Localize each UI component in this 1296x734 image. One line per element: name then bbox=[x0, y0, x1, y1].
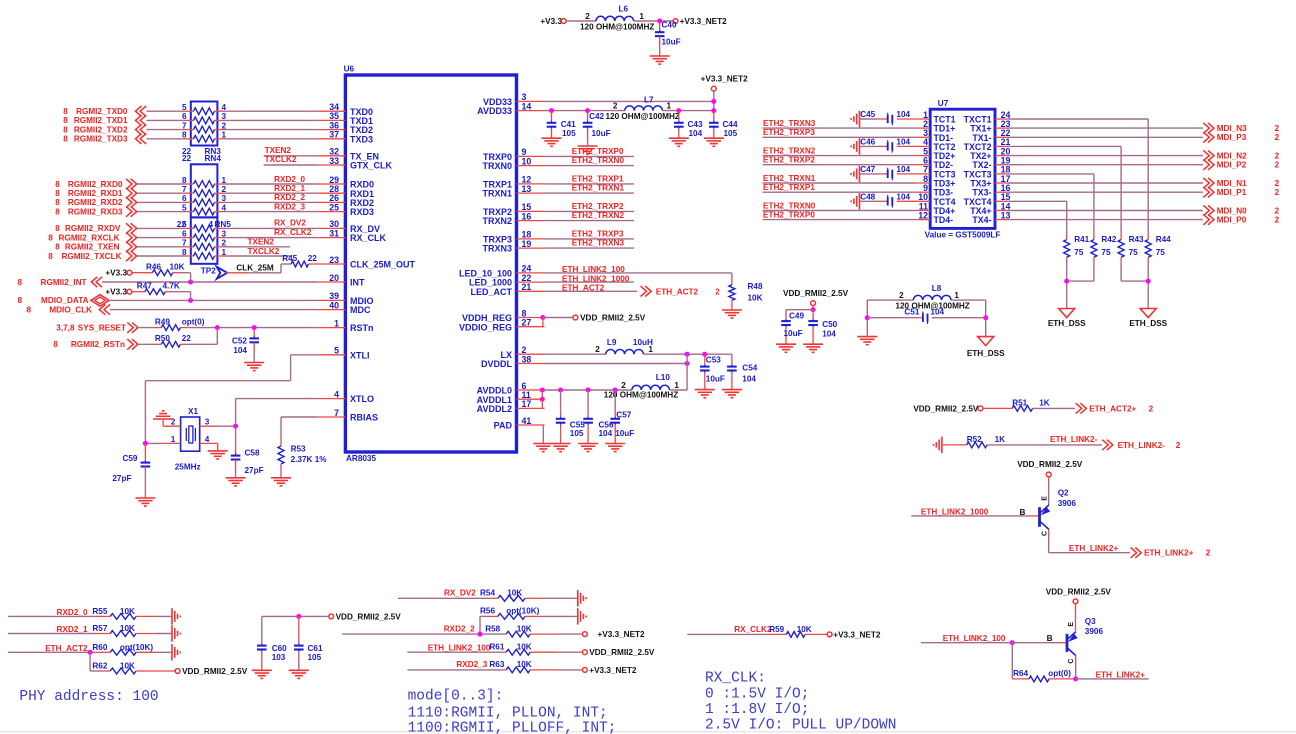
svg-text:R62: R62 bbox=[92, 662, 107, 671]
svg-text:2: 2 bbox=[1275, 124, 1280, 133]
svg-text:8: 8 bbox=[55, 180, 60, 189]
svg-text:4: 4 bbox=[209, 220, 214, 229]
svg-text:2: 2 bbox=[715, 287, 720, 296]
svg-text:RN4: RN4 bbox=[205, 154, 222, 163]
svg-text:20: 20 bbox=[329, 273, 339, 283]
svg-text:ETH2_TRXN1: ETH2_TRXN1 bbox=[572, 184, 625, 193]
svg-text:8: 8 bbox=[55, 198, 60, 207]
svg-text:75: 75 bbox=[1129, 248, 1139, 257]
svg-text:R49: R49 bbox=[155, 317, 170, 326]
svg-text:10K: 10K bbox=[507, 589, 522, 598]
svg-text:RXD2_2: RXD2_2 bbox=[274, 193, 305, 202]
svg-text:22: 22 bbox=[182, 334, 192, 343]
svg-text:10uF: 10uF bbox=[662, 38, 681, 47]
svg-text:R56: R56 bbox=[480, 607, 495, 616]
svg-text:RXD2_1: RXD2_1 bbox=[57, 625, 88, 634]
svg-text:ETH_LINK2-: ETH_LINK2- bbox=[1050, 435, 1098, 444]
svg-text:ETH_ACT2: ETH_ACT2 bbox=[45, 644, 88, 653]
svg-text:2: 2 bbox=[1275, 133, 1280, 142]
svg-text:27: 27 bbox=[522, 318, 532, 328]
svg-text:TXCLK2: TXCLK2 bbox=[248, 247, 280, 256]
svg-text:E: E bbox=[1068, 622, 1075, 627]
svg-text:PAD: PAD bbox=[494, 421, 513, 431]
svg-text:RX_DV2: RX_DV2 bbox=[444, 589, 476, 598]
svg-text:opt(10K): opt(10K) bbox=[506, 607, 539, 616]
svg-text:ETH_DSS: ETH_DSS bbox=[1129, 319, 1167, 328]
svg-text:INT: INT bbox=[350, 278, 365, 288]
svg-text:10uF: 10uF bbox=[784, 329, 803, 338]
svg-text:C59: C59 bbox=[122, 454, 137, 463]
svg-text:B: B bbox=[1047, 634, 1053, 643]
svg-text:RXD2_0: RXD2_0 bbox=[274, 175, 305, 184]
svg-text:27pF: 27pF bbox=[112, 474, 131, 483]
svg-text:C51: C51 bbox=[904, 308, 919, 317]
svg-text:1: 1 bbox=[954, 291, 959, 300]
svg-text:RX_DV2: RX_DV2 bbox=[274, 218, 306, 227]
svg-text:+V3.3_NET2: +V3.3_NET2 bbox=[833, 630, 881, 639]
svg-text:TP2: TP2 bbox=[201, 267, 216, 276]
svg-text:ETH_LINK2-: ETH_LINK2- bbox=[1118, 441, 1166, 450]
svg-text:2: 2 bbox=[1275, 188, 1280, 197]
svg-text:RGMII2_TXD3: RGMII2_TXD3 bbox=[74, 135, 128, 144]
svg-text:RXD3: RXD3 bbox=[350, 207, 374, 217]
svg-text:R57: R57 bbox=[92, 624, 107, 633]
svg-text:1: 1 bbox=[639, 12, 644, 21]
svg-text:MDI_P1: MDI_P1 bbox=[1217, 188, 1247, 197]
svg-text:RGMII2_RXD1: RGMII2_RXD1 bbox=[68, 189, 123, 198]
svg-text:+V3.3_NET2: +V3.3_NET2 bbox=[701, 74, 749, 83]
svg-text:2: 2 bbox=[899, 291, 904, 300]
svg-text:2: 2 bbox=[1275, 215, 1280, 224]
svg-text:R54: R54 bbox=[480, 589, 495, 598]
svg-text:ETH2_TRXP3: ETH2_TRXP3 bbox=[763, 128, 815, 137]
svg-text:R44: R44 bbox=[1156, 235, 1171, 244]
svg-text:ETH2_TRXN3: ETH2_TRXN3 bbox=[572, 239, 625, 248]
svg-text:RGMII2_TXCLK: RGMII2_TXCLK bbox=[61, 252, 121, 261]
svg-text:RGMI2_TXD0: RGMI2_TXD0 bbox=[76, 107, 128, 116]
svg-text:ETH_LINK2_100: ETH_LINK2_100 bbox=[562, 265, 625, 274]
svg-text:10uF: 10uF bbox=[592, 129, 611, 138]
svg-text:RXD2_0: RXD2_0 bbox=[57, 608, 88, 617]
svg-text:2: 2 bbox=[595, 345, 600, 354]
svg-text:12: 12 bbox=[918, 210, 928, 220]
svg-text:ETH_DSS: ETH_DSS bbox=[1048, 319, 1086, 328]
svg-text:CLK_25M_OUT: CLK_25M_OUT bbox=[350, 260, 416, 270]
svg-text:C53: C53 bbox=[706, 355, 721, 364]
svg-text:R48: R48 bbox=[748, 282, 763, 291]
svg-text:4.7K: 4.7K bbox=[163, 282, 180, 291]
svg-text:10: 10 bbox=[522, 156, 532, 166]
svg-text:DVDDL: DVDDL bbox=[481, 359, 513, 369]
svg-text:Q2: Q2 bbox=[1058, 488, 1069, 497]
svg-text:120 OHM@100MHZ: 120 OHM@100MHZ bbox=[580, 23, 654, 32]
svg-text:RXD2_1: RXD2_1 bbox=[274, 184, 305, 193]
svg-text:R55: R55 bbox=[92, 607, 107, 616]
svg-text:Q3: Q3 bbox=[1085, 617, 1096, 626]
svg-text:105: 105 bbox=[570, 429, 584, 438]
svg-text:104: 104 bbox=[599, 429, 613, 438]
svg-text:mode[0..3]:: mode[0..3]: bbox=[408, 689, 504, 705]
svg-text:C58: C58 bbox=[245, 448, 260, 457]
svg-text:ETH2_TRXP0: ETH2_TRXP0 bbox=[572, 147, 624, 156]
svg-text:VDD_RMII2_2.5V: VDD_RMII2_2.5V bbox=[1017, 460, 1083, 469]
svg-text:104: 104 bbox=[896, 165, 910, 174]
svg-text:41: 41 bbox=[522, 416, 532, 426]
svg-text:C46: C46 bbox=[860, 138, 875, 147]
svg-text:10uF: 10uF bbox=[706, 374, 725, 383]
svg-text:R64: R64 bbox=[1013, 669, 1028, 678]
svg-text:8: 8 bbox=[17, 278, 22, 287]
svg-text:+V3.3_NET2: +V3.3_NET2 bbox=[598, 630, 646, 639]
svg-text:opt(10K): opt(10K) bbox=[120, 643, 153, 652]
svg-text:R58: R58 bbox=[485, 624, 500, 633]
svg-text:R63: R63 bbox=[489, 660, 504, 669]
svg-text:8: 8 bbox=[63, 125, 68, 134]
svg-text:X1: X1 bbox=[188, 407, 198, 416]
svg-text:PHY address: 100: PHY address: 100 bbox=[19, 689, 158, 705]
svg-text:C52: C52 bbox=[232, 337, 247, 346]
svg-text:TX4-: TX4- bbox=[972, 215, 991, 225]
svg-text:R53: R53 bbox=[291, 444, 306, 453]
svg-text:2.37K 1%: 2.37K 1% bbox=[291, 455, 328, 464]
svg-text:VDD_RMII2_2.5V: VDD_RMII2_2.5V bbox=[336, 612, 402, 621]
svg-text:10uH: 10uH bbox=[633, 338, 653, 347]
svg-text:75: 75 bbox=[1156, 248, 1166, 257]
svg-text:R61: R61 bbox=[489, 642, 504, 651]
svg-text:RGMII2_RXD2: RGMII2_RXD2 bbox=[68, 198, 123, 207]
svg-text:MDI_P0: MDI_P0 bbox=[1217, 215, 1247, 224]
svg-text:7: 7 bbox=[334, 408, 339, 418]
svg-text:2: 2 bbox=[1149, 404, 1154, 413]
svg-text:8: 8 bbox=[55, 224, 60, 233]
svg-text:L8: L8 bbox=[932, 284, 942, 293]
svg-text:104: 104 bbox=[689, 129, 703, 138]
svg-text:VDD_RMII2_2.5V: VDD_RMII2_2.5V bbox=[580, 314, 646, 323]
svg-text:ETH_ACT2: ETH_ACT2 bbox=[656, 287, 699, 296]
svg-text:TRXN0: TRXN0 bbox=[482, 161, 512, 171]
svg-text:C: C bbox=[1068, 659, 1075, 664]
svg-text:RGMII2_TXD1: RGMII2_TXD1 bbox=[74, 116, 128, 125]
svg-text:C40: C40 bbox=[662, 20, 677, 29]
svg-text:ETH_DSS: ETH_DSS bbox=[967, 349, 1005, 358]
svg-text:ETH2_TRXP2: ETH2_TRXP2 bbox=[572, 202, 624, 211]
svg-text:GTX_CLK: GTX_CLK bbox=[350, 161, 393, 171]
svg-text:1 :1.8V I/O;: 1 :1.8V I/O; bbox=[705, 702, 809, 718]
svg-text:RX_CLK: RX_CLK bbox=[350, 233, 387, 243]
svg-text:C54: C54 bbox=[742, 363, 757, 372]
svg-text:10uF: 10uF bbox=[615, 429, 634, 438]
svg-text:RGMII2_RXCLK: RGMII2_RXCLK bbox=[59, 233, 120, 242]
svg-text:L9: L9 bbox=[607, 338, 617, 347]
svg-text:TXCLK2: TXCLK2 bbox=[265, 155, 297, 164]
svg-text:+V3.3_NET2: +V3.3_NET2 bbox=[589, 666, 637, 675]
svg-text:13: 13 bbox=[1001, 210, 1011, 220]
svg-text:MDI_N0: MDI_N0 bbox=[1217, 206, 1247, 215]
svg-text:1: 1 bbox=[667, 101, 672, 110]
svg-text:+V3.3_NET2: +V3.3_NET2 bbox=[680, 17, 728, 26]
svg-text:103: 103 bbox=[272, 653, 286, 662]
svg-text:1100:RGMII, PLLOFF, INT;: 1100:RGMII, PLLOFF, INT; bbox=[408, 720, 617, 734]
svg-text:ETH2_TRXN2: ETH2_TRXN2 bbox=[572, 211, 625, 220]
svg-text:C48: C48 bbox=[860, 193, 875, 202]
svg-text:MDIO_CLK: MDIO_CLK bbox=[49, 305, 92, 314]
svg-text:ETH2_TRXP0: ETH2_TRXP0 bbox=[763, 210, 815, 219]
svg-text:R52: R52 bbox=[967, 435, 982, 444]
svg-text:2: 2 bbox=[1275, 179, 1280, 188]
svg-text:ETH2_TRXN0: ETH2_TRXN0 bbox=[572, 156, 625, 165]
svg-text:R51: R51 bbox=[1012, 398, 1027, 407]
svg-text:RX_CLK2: RX_CLK2 bbox=[274, 228, 312, 237]
svg-text:TXD3: TXD3 bbox=[350, 134, 373, 144]
svg-text:8: 8 bbox=[63, 107, 68, 116]
svg-text:1110:RGMII, PLLON, INT;: 1110:RGMII, PLLON, INT; bbox=[408, 705, 608, 721]
svg-text:RGMII2_TXEN: RGMII2_TXEN bbox=[65, 243, 120, 252]
svg-text:27pF: 27pF bbox=[245, 466, 264, 475]
svg-text:MDI_N1: MDI_N1 bbox=[1217, 179, 1247, 188]
svg-text:3906: 3906 bbox=[1085, 627, 1104, 636]
svg-text:RBIAS: RBIAS bbox=[350, 413, 378, 423]
svg-text:RGMII2_RSTn: RGMII2_RSTn bbox=[71, 340, 125, 349]
svg-text:104: 104 bbox=[742, 374, 756, 383]
svg-text:R60: R60 bbox=[92, 643, 107, 652]
svg-text:SYS_RESET: SYS_RESET bbox=[78, 323, 126, 332]
svg-text:75: 75 bbox=[1101, 248, 1111, 257]
svg-text:R50: R50 bbox=[155, 334, 170, 343]
svg-text:2: 2 bbox=[1275, 161, 1280, 170]
svg-text:10K: 10K bbox=[120, 624, 135, 633]
svg-text:RGMII2_RXDV: RGMII2_RXDV bbox=[65, 224, 121, 233]
svg-text:10K: 10K bbox=[120, 662, 135, 671]
svg-text:ETH_LINK2+: ETH_LINK2+ bbox=[1096, 670, 1146, 679]
svg-text:1: 1 bbox=[334, 318, 339, 328]
svg-text:1K: 1K bbox=[1039, 398, 1050, 407]
svg-text:8: 8 bbox=[63, 116, 68, 125]
svg-text:RGMII2_INT: RGMII2_INT bbox=[41, 278, 87, 287]
svg-text:L7: L7 bbox=[644, 96, 654, 105]
svg-text:TRXN2: TRXN2 bbox=[482, 216, 512, 226]
svg-text:8: 8 bbox=[55, 207, 60, 216]
svg-text:10K: 10K bbox=[120, 607, 135, 616]
svg-text:MDC: MDC bbox=[350, 305, 371, 315]
svg-text:2: 2 bbox=[585, 12, 590, 21]
svg-text:ETH2_TRXN1: ETH2_TRXN1 bbox=[763, 174, 816, 183]
svg-text:L10: L10 bbox=[656, 373, 671, 382]
svg-text:VDD_RMII2_2.5V: VDD_RMII2_2.5V bbox=[182, 667, 248, 676]
svg-text:MDI_N3: MDI_N3 bbox=[1217, 124, 1247, 133]
svg-text:MDIO_DATA: MDIO_DATA bbox=[41, 296, 89, 305]
svg-text:RXD2_3: RXD2_3 bbox=[274, 202, 305, 211]
svg-text:C47: C47 bbox=[860, 165, 875, 174]
svg-text:2: 2 bbox=[621, 381, 626, 390]
svg-text:R59: R59 bbox=[769, 625, 784, 634]
svg-text:ETH_LINK2+: ETH_LINK2+ bbox=[1144, 549, 1194, 558]
svg-text:ETH2_TRXN2: ETH2_TRXN2 bbox=[763, 146, 816, 155]
svg-text:MDI_N2: MDI_N2 bbox=[1217, 151, 1247, 160]
svg-text:13: 13 bbox=[522, 184, 532, 194]
svg-text:CLK_25M: CLK_25M bbox=[236, 263, 273, 272]
svg-text:RX_CLK2: RX_CLK2 bbox=[734, 625, 772, 634]
svg-text:10K: 10K bbox=[170, 263, 185, 272]
svg-text:104: 104 bbox=[896, 110, 910, 119]
svg-text:R43: R43 bbox=[1129, 235, 1144, 244]
svg-text:Value = GST5009LF: Value = GST5009LF bbox=[925, 231, 1001, 240]
svg-text:TRXN1: TRXN1 bbox=[482, 189, 512, 199]
svg-text:XTLI: XTLI bbox=[350, 350, 370, 360]
svg-text:ETH_ACT2: ETH_ACT2 bbox=[562, 284, 605, 293]
svg-text:C60: C60 bbox=[272, 644, 287, 653]
svg-text:22: 22 bbox=[182, 154, 192, 163]
svg-text:10K: 10K bbox=[517, 660, 532, 669]
svg-text:RX_CLK:: RX_CLK: bbox=[705, 671, 766, 687]
svg-text:MDI_P3: MDI_P3 bbox=[1217, 133, 1247, 142]
svg-text:ETH_LINK2_100: ETH_LINK2_100 bbox=[428, 644, 491, 653]
svg-text:ETH2_TRXP1: ETH2_TRXP1 bbox=[763, 183, 815, 192]
svg-text:22: 22 bbox=[308, 254, 318, 263]
svg-text:2: 2 bbox=[1176, 441, 1181, 450]
svg-text:opt(0): opt(0) bbox=[182, 317, 205, 326]
svg-text:8: 8 bbox=[17, 296, 22, 305]
svg-text:31: 31 bbox=[329, 228, 339, 238]
svg-text:C45: C45 bbox=[860, 110, 875, 119]
svg-text:VDD_RMII2_2.5V: VDD_RMII2_2.5V bbox=[783, 289, 849, 298]
svg-text:C50: C50 bbox=[822, 320, 837, 329]
svg-text:5: 5 bbox=[334, 346, 339, 356]
svg-text:33: 33 bbox=[329, 156, 339, 166]
svg-text:TD4-: TD4- bbox=[934, 215, 954, 225]
svg-text:RGMII2_RXD3: RGMII2_RXD3 bbox=[68, 207, 123, 216]
svg-text:opt(0): opt(0) bbox=[1048, 669, 1071, 678]
svg-text:10K: 10K bbox=[797, 625, 812, 634]
svg-text:4: 4 bbox=[205, 435, 210, 444]
svg-text:8: 8 bbox=[55, 189, 60, 198]
svg-text:14: 14 bbox=[522, 101, 532, 111]
svg-text:8: 8 bbox=[63, 135, 68, 144]
svg-text:2: 2 bbox=[1275, 151, 1280, 160]
svg-text:VDD_RMII2_2.5V: VDD_RMII2_2.5V bbox=[1046, 588, 1112, 597]
svg-text:TXEN2: TXEN2 bbox=[248, 238, 275, 247]
svg-text:10K: 10K bbox=[748, 294, 763, 303]
svg-text:R47: R47 bbox=[137, 282, 152, 291]
svg-text:ETH2_TRXN0: ETH2_TRXN0 bbox=[763, 201, 816, 210]
svg-text:ETH_LINK2_100: ETH_LINK2_100 bbox=[943, 634, 1006, 643]
svg-text:RXD2_3: RXD2_3 bbox=[456, 660, 487, 669]
svg-text:8: 8 bbox=[26, 305, 31, 314]
svg-text:3906: 3906 bbox=[1058, 499, 1077, 508]
svg-text:0 :1.5V I/O;: 0 :1.5V I/O; bbox=[705, 686, 809, 702]
svg-text:+V3.3: +V3.3 bbox=[105, 268, 127, 277]
svg-text:AVDD33: AVDD33 bbox=[477, 106, 512, 116]
svg-text:17: 17 bbox=[522, 399, 532, 409]
svg-text:TRXN3: TRXN3 bbox=[482, 244, 512, 254]
svg-text:105: 105 bbox=[562, 129, 576, 138]
svg-text:L6: L6 bbox=[619, 5, 629, 14]
svg-text:2: 2 bbox=[1206, 549, 1211, 558]
svg-text:VDDIO_REG: VDDIO_REG bbox=[459, 322, 512, 332]
svg-text:ETH2_TRXP2: ETH2_TRXP2 bbox=[763, 156, 815, 165]
svg-text:38: 38 bbox=[522, 354, 532, 364]
svg-text:C42: C42 bbox=[589, 112, 604, 121]
svg-text:2: 2 bbox=[613, 101, 618, 110]
svg-text:ETH2_TRXP1: ETH2_TRXP1 bbox=[572, 174, 624, 183]
svg-text:16: 16 bbox=[522, 211, 532, 221]
svg-text:25: 25 bbox=[329, 202, 339, 212]
svg-text:120 OHM@100MHZ: 120 OHM@100MHZ bbox=[606, 112, 680, 121]
svg-text:2.5V I/O: PULL UP/DOWN: 2.5V I/O: PULL UP/DOWN bbox=[705, 717, 896, 733]
svg-text:R46: R46 bbox=[146, 263, 161, 272]
svg-text:4: 4 bbox=[334, 389, 339, 399]
svg-text:E: E bbox=[1041, 496, 1048, 501]
svg-text:ETH2_TRXN3: ETH2_TRXN3 bbox=[763, 119, 816, 128]
svg-text:U7: U7 bbox=[938, 99, 949, 108]
svg-text:25MHz: 25MHz bbox=[175, 462, 201, 471]
svg-text:R45: R45 bbox=[282, 254, 297, 263]
svg-text:ETH_LINK2+: ETH_LINK2+ bbox=[1069, 544, 1119, 553]
svg-text:C61: C61 bbox=[308, 644, 323, 653]
svg-text:RSTn: RSTn bbox=[350, 323, 374, 333]
svg-text:ETH_ACT2+: ETH_ACT2+ bbox=[1089, 404, 1136, 413]
svg-text:XTLO: XTLO bbox=[350, 394, 374, 404]
svg-text:C: C bbox=[1041, 531, 1048, 536]
svg-text:104: 104 bbox=[822, 329, 836, 338]
svg-text:104: 104 bbox=[896, 193, 910, 202]
svg-text:75: 75 bbox=[1074, 248, 1084, 257]
svg-text:ETH2_TRXP3: ETH2_TRXP3 bbox=[572, 229, 624, 238]
svg-text:10K: 10K bbox=[517, 624, 532, 633]
svg-text:+V3.3: +V3.3 bbox=[540, 17, 562, 26]
svg-text:40: 40 bbox=[329, 300, 339, 310]
svg-text:1: 1 bbox=[674, 381, 679, 390]
svg-text:8: 8 bbox=[53, 340, 58, 349]
svg-text:37: 37 bbox=[329, 130, 339, 140]
svg-text:105: 105 bbox=[724, 129, 738, 138]
svg-text:19: 19 bbox=[522, 239, 532, 249]
svg-text:RGMII2_TXD2: RGMII2_TXD2 bbox=[74, 125, 128, 134]
svg-text:+V3.3: +V3.3 bbox=[105, 287, 127, 296]
svg-text:R42: R42 bbox=[1101, 235, 1116, 244]
svg-text:3,7,8: 3,7,8 bbox=[56, 323, 75, 332]
svg-text:AR8035: AR8035 bbox=[346, 454, 376, 463]
svg-text:8: 8 bbox=[55, 243, 60, 252]
svg-text:RGMII2_RXD0: RGMII2_RXD0 bbox=[68, 180, 123, 189]
svg-text:LED_ACT: LED_ACT bbox=[470, 287, 512, 297]
svg-text:TXEN2: TXEN2 bbox=[265, 146, 292, 155]
svg-text:8: 8 bbox=[48, 252, 53, 261]
svg-text:C49: C49 bbox=[789, 311, 804, 320]
svg-text:C57: C57 bbox=[616, 411, 631, 420]
svg-text:1K: 1K bbox=[995, 435, 1006, 444]
svg-text:23: 23 bbox=[329, 255, 339, 265]
svg-text:1: 1 bbox=[171, 435, 176, 444]
svg-text:105: 105 bbox=[308, 653, 322, 662]
svg-text:2: 2 bbox=[1275, 206, 1280, 215]
svg-text:104: 104 bbox=[896, 138, 910, 147]
svg-text:U6: U6 bbox=[344, 65, 355, 74]
svg-text:ETH_LINK2_1000: ETH_LINK2_1000 bbox=[562, 274, 630, 283]
svg-text:R41: R41 bbox=[1074, 235, 1089, 244]
svg-text:3: 3 bbox=[205, 418, 210, 427]
svg-text:ETH_LINK2_1000: ETH_LINK2_1000 bbox=[921, 507, 989, 516]
svg-text:VDD_RMII2_2.5V: VDD_RMII2_2.5V bbox=[913, 404, 979, 413]
svg-text:RXD2_2: RXD2_2 bbox=[444, 624, 475, 633]
svg-text:10K: 10K bbox=[517, 642, 532, 651]
svg-text:VDD_RMII2_2.5V: VDD_RMII2_2.5V bbox=[589, 648, 655, 657]
svg-text:8: 8 bbox=[48, 233, 53, 242]
svg-text:MDI_P2: MDI_P2 bbox=[1217, 161, 1247, 170]
svg-text:104: 104 bbox=[930, 308, 944, 317]
svg-text:104: 104 bbox=[233, 346, 247, 355]
svg-text:AVDDL2: AVDDL2 bbox=[477, 404, 512, 414]
svg-text:21: 21 bbox=[522, 282, 532, 292]
